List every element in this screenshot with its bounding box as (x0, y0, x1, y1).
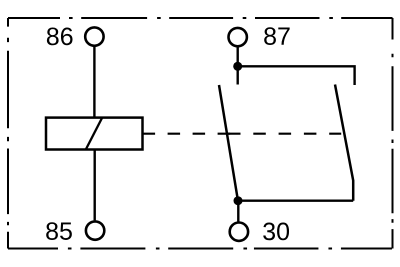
label 86 (47, 28, 73, 46)
terminal 86 (85, 27, 103, 45)
switch blade contact left (30-87) (219, 85, 238, 200)
wire 86 to coil (93, 47, 95, 118)
coil K1 box (46, 118, 143, 150)
dashed actuator link from coil (left of blade) (143, 133, 231, 135)
label 30 (263, 223, 289, 241)
wire coil to 85 (93, 150, 95, 221)
switch blade contact right (30-87 second) (335, 85, 353, 201)
wire top rail to right fixed contact (238, 66, 355, 85)
label 87 (264, 27, 289, 45)
terminal 30 (230, 223, 248, 241)
label 85 (46, 222, 72, 240)
wire bottom rail (238, 199, 353, 201)
coil diagonal stroke (86, 118, 102, 150)
terminal 85 (86, 221, 104, 239)
wire 87 to node and fixed contact stub (236, 48, 238, 85)
wire node to terminal 30 (237, 201, 239, 222)
junction node at 87 (233, 62, 242, 71)
dashed actuator link (right of blade) (228, 133, 341, 135)
junction node at 30 (234, 196, 243, 205)
terminal 87 (229, 28, 247, 46)
